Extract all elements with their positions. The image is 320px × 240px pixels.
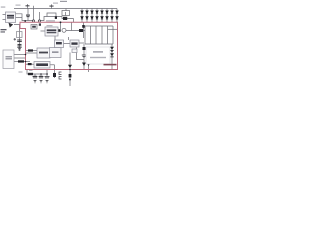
component sense block [53, 73, 56, 77]
wire load leg [69, 53, 71, 87]
connector brackets J2 [59, 72, 62, 79]
wire U2 left pin [41, 30, 46, 32]
ground G2 [39, 76, 44, 83]
transformer T1 loop [62, 11, 70, 16]
IC U3 gate block [55, 40, 64, 48]
wire power stage run [66, 30, 85, 32]
IC U2 LED controller [45, 27, 66, 36]
capacitor C2 plates [49, 5, 53, 8]
ground G3 [45, 76, 50, 83]
wire bottom collector bus [85, 43, 113, 45]
wire bottom cap drop 1 [34, 74, 36, 76]
wire transformer secondary drop [39, 12, 41, 20]
component xtal [72, 49, 77, 53]
text aux labels [19, 70, 33, 73]
LED string D3 [81, 11, 83, 19]
LED array anodes/cathodes [81, 11, 118, 19]
LED string D7 [101, 11, 103, 19]
wire mcu left pin [68, 37, 70, 40]
wire diode D1 run [60, 17, 74, 19]
capacitor C3 left column [17, 32, 44, 77]
capacitor C6 bottom [39, 75, 43, 77]
diode aux arrow [87, 63, 91, 66]
wire left AC feed [14, 25, 20, 51]
wire buck input 2 [26, 52, 38, 54]
ground symbols [17, 47, 86, 83]
wire transformer drop [65, 9, 67, 11]
capacitor C5 bottom [33, 75, 37, 77]
ground G5 left column [17, 47, 21, 50]
wire charger right leg [111, 44, 113, 69]
diode output [82, 63, 86, 67]
wire secondary to snubber [40, 17, 61, 21]
connector terminal circles [32, 20, 34, 22]
ground G1 [33, 76, 38, 83]
wire bus tick [33, 6, 35, 9]
IC U4 MCU [70, 40, 79, 53]
LED string D5 [91, 11, 93, 19]
wire controller feed [60, 23, 62, 30]
LED string D6 [96, 11, 98, 19]
diode D2 power stage [79, 29, 83, 32]
wire aux leg [88, 60, 90, 72]
wire return header bus [82, 25, 113, 27]
LED string D10 [116, 11, 118, 19]
wire right link bus [108, 28, 118, 30]
diode charger left [83, 47, 86, 50]
wire charger left leg [83, 44, 85, 55]
wire D1 to red border [73, 19, 75, 23]
resistor R4 buck input [28, 49, 33, 51]
resistor R5 LDO feed [28, 63, 32, 65]
text watermark TIDA [104, 64, 117, 66]
wire bottom cap drop 3 [46, 70, 48, 76]
wire U2 bottom feed [54, 36, 56, 40]
wire LED string columns [81, 9, 83, 23]
block AC/DC converter [3, 50, 14, 69]
wire AC/DC pin stubs [14, 54, 26, 56]
component load blob [69, 74, 72, 77]
node feed junction [60, 21, 62, 23]
wire input IC right pins [16, 14, 34, 21]
block LDO [34, 62, 50, 69]
wire gate drive link [64, 43, 71, 45]
node rail dots [40, 73, 42, 75]
wire buck input 1 [26, 50, 38, 52]
wire LED return columns [84, 26, 86, 44]
block buck converter [37, 40, 64, 58]
wire output L-run [77, 48, 85, 70]
diode charger right 1 [110, 47, 114, 50]
capacitor C1 plates [26, 4, 30, 7]
capacitor C2 stub [51, 4, 53, 8]
capacitor C1 stub [27, 4, 29, 9]
red boundary box [20, 22, 118, 69]
wire transformer primary drop [33, 9, 35, 21]
transistor Q1 [55, 16, 57, 19]
wire sense drop [83, 23, 85, 31]
node load dot [69, 79, 71, 81]
IC U1 input converter [3, 12, 16, 23]
text net labels [1, 3, 58, 27]
diode load top [68, 65, 72, 68]
sense resistor R1 [82, 25, 84, 28]
wire boost tap [71, 23, 73, 31]
component arrow mark [9, 23, 14, 28]
wire bottom cap drop 2 [40, 74, 42, 76]
ground G4 charger [82, 55, 86, 58]
diode D1 [63, 17, 67, 20]
wire switch node down [83, 31, 85, 39]
inductor L1 [62, 28, 66, 32]
filter block FL1 [31, 23, 41, 29]
resistor R3 LDO input [18, 60, 24, 62]
LED string D9 [111, 11, 113, 19]
wire mcu right pin [79, 42, 84, 44]
wire AC/DC out to LDO [14, 61, 30, 63]
wire bottom cap rail [27, 70, 48, 74]
LED string D8 [106, 11, 108, 19]
text AC input labels [1, 23, 17, 41]
block battery charger [86, 47, 110, 64]
text top label [60, 1, 67, 2]
node border crossing dots [25, 54, 27, 56]
capacitor C4 left column [18, 43, 22, 45]
wire top bus [14, 8, 117, 10]
resistor R2 bottom rail [28, 73, 33, 75]
wire snubber loop [47, 13, 56, 17]
LED string D4 [86, 11, 88, 19]
diode charger right 2 [110, 53, 114, 56]
node input junction [24, 20, 26, 22]
